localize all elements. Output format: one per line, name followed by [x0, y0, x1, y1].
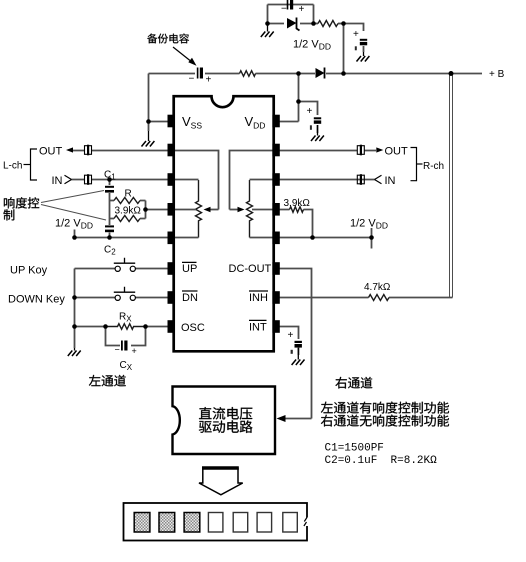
svg-text:C2: C2 [104, 245, 116, 257]
svg-text:C1=1500PF: C1=1500PF [325, 443, 384, 455]
svg-text:R-ch: R-ch [423, 161, 444, 172]
svg-text:VDD: VDD [245, 114, 266, 130]
svg-text:C1: C1 [104, 170, 116, 182]
svg-text:1/2 VDD: 1/2 VDD [293, 39, 331, 52]
svg-text:OSC: OSC [181, 322, 205, 334]
svg-text:+: + [353, 29, 359, 40]
svg-text:UP Koy: UP Koy [10, 265, 48, 277]
svg-text:RX: RX [119, 312, 132, 324]
svg-text:3.9kΩ: 3.9kΩ [284, 198, 311, 209]
svg-text:OUT: OUT [385, 146, 409, 158]
svg-text:+: + [206, 75, 212, 86]
svg-text:−: − [115, 345, 120, 355]
svg-text:DC-OUT: DC-OUT [229, 263, 272, 275]
svg-text:−: − [281, 4, 287, 15]
svg-text:CX: CX [120, 360, 133, 372]
svg-text:DN: DN [182, 292, 198, 304]
svg-text:1/2 VDD: 1/2 VDD [55, 218, 93, 231]
svg-text:1/2 VDD: 1/2 VDD [350, 218, 388, 231]
svg-text:UP: UP [182, 263, 197, 275]
svg-text:L-ch: L-ch [3, 161, 22, 172]
svg-text:+ B: + B [489, 69, 505, 80]
svg-text:OUT: OUT [39, 146, 63, 158]
svg-text:4.7kΩ: 4.7kΩ [364, 282, 391, 293]
svg-text:3.9kΩ: 3.9kΩ [115, 206, 142, 217]
svg-text:IN: IN [385, 175, 396, 187]
svg-text:+: + [132, 346, 137, 356]
svg-text:+: + [307, 106, 313, 117]
svg-text:+: + [288, 330, 294, 341]
svg-text:DOWN Key: DOWN Key [8, 294, 65, 306]
svg-text:INT: INT [249, 322, 267, 334]
svg-text:IN: IN [52, 175, 63, 187]
svg-text:VSS: VSS [182, 114, 202, 130]
svg-text:INH: INH [249, 292, 268, 304]
svg-text:+: + [299, 4, 305, 15]
svg-text:C2=0.1uF R=8.2KΩ: C2=0.1uF R=8.2KΩ [325, 455, 438, 467]
svg-text:−: − [189, 74, 195, 85]
svg-text:R: R [125, 189, 132, 200]
